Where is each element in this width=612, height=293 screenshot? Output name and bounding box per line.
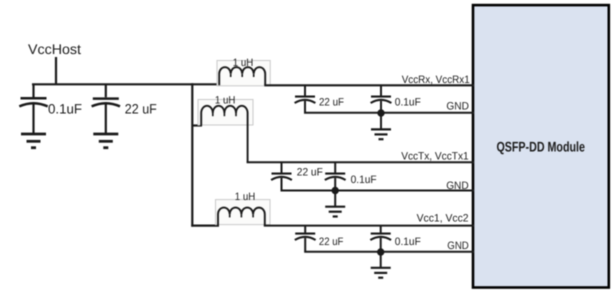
wire L2 feed from bus — [192, 124, 202, 126]
net label VccTx, VccTx1 — [401, 150, 469, 162]
svg-text:0.1uF: 0.1uF — [395, 236, 421, 248]
value label 22 uF (C2) — [125, 102, 157, 117]
node VccHost label — [28, 41, 81, 57]
svg-text:0.1uF: 0.1uF — [395, 97, 421, 109]
ground for C2 — [93, 134, 118, 148]
wire VccHost tap — [55, 57, 57, 85]
net label VccRx, VccRx1 — [402, 74, 470, 86]
junction dot Rx — [377, 109, 384, 116]
svg-text:GND: GND — [447, 240, 469, 252]
svg-text:22 uF: 22 uF — [319, 97, 344, 109]
junction dot Tx — [332, 187, 339, 194]
svg-text:22 uF: 22 uF — [125, 102, 157, 117]
capacitor C7 22uF (Vcc) — [295, 226, 316, 252]
svg-text:GND: GND — [446, 100, 469, 112]
value label 1 uH (L2) — [215, 94, 236, 106]
svg-text:GND: GND — [446, 180, 469, 192]
ground branch Tx — [325, 191, 345, 217]
svg-text:1 uH: 1 uH — [235, 191, 256, 203]
wire VccTx branch top — [247, 161, 474, 163]
ground branch Rx — [371, 113, 391, 139]
capacitor C4 0.1uF (Rx) — [371, 85, 392, 113]
inductor L2 1uH — [201, 106, 247, 163]
value label 0.1uF (C4) — [395, 97, 421, 109]
capacitor C2 22uF — [92, 84, 120, 133]
svg-text:0.1uF: 0.1uF — [351, 174, 377, 186]
value label 22 uF (C7) — [319, 236, 344, 248]
value label 22 uF (C3) — [319, 97, 344, 109]
module U1 QSFP-DD Module box — [473, 5, 609, 287]
value label 1 uH (L1) — [233, 57, 254, 69]
value label 1 uH (L3) — [235, 191, 256, 203]
wire Vcc GND return — [304, 251, 474, 253]
wire main bus — [32, 83, 220, 85]
capacitor C8 0.1uF (Vcc) — [370, 226, 391, 252]
svg-text:VccTx, VccTx1: VccTx, VccTx1 — [401, 150, 469, 162]
capacitor C3 22uF (Rx) — [295, 85, 316, 113]
net label GND (Tx) — [446, 180, 469, 192]
net label Vcc1, Vcc2 — [417, 213, 469, 225]
svg-text:QSFP-DD Module: QSFP-DD Module — [496, 138, 585, 154]
wire Tx GND return — [281, 190, 475, 192]
wire vertical bus to L2 and L3 — [191, 83, 193, 226]
capacitor C6 0.1uF (Tx) — [325, 162, 346, 190]
value label 22 uF (C5) — [297, 166, 323, 178]
wire Vcc branch top — [264, 225, 474, 227]
svg-text:VccHost: VccHost — [28, 41, 81, 57]
inductor L3 1uH — [218, 208, 265, 226]
inductor L1 1uH — [219, 67, 265, 85]
wire VccRx branch top — [264, 84, 474, 86]
svg-text:22 uF: 22 uF — [319, 236, 344, 248]
capacitor C5 22uF (Tx) — [271, 162, 292, 190]
svg-text:0.1uF: 0.1uF — [48, 102, 82, 117]
value label 0.1uF (C8) — [395, 236, 421, 248]
net label GND (Vcc) — [447, 240, 469, 252]
capacitor C1 0.1uF — [19, 84, 47, 133]
svg-text:VccRx, VccRx1: VccRx, VccRx1 — [402, 74, 470, 86]
junction dot Vcc — [377, 248, 384, 255]
inductor L3 boundary box — [216, 200, 271, 225]
value label 0.1uF (C6) — [351, 174, 377, 186]
value label 0.1uF (C1) — [48, 102, 82, 117]
inductor L2 boundary box — [198, 100, 253, 126]
wire L3 feed corner from bus — [191, 225, 219, 227]
wire Rx GND return — [304, 112, 474, 114]
label QSFP-DD Module — [496, 138, 585, 154]
svg-text:Vcc1, Vcc2: Vcc1, Vcc2 — [417, 213, 469, 225]
net label GND (Rx) — [446, 100, 469, 112]
inductor L1 boundary box — [217, 61, 270, 86]
svg-text:1 uH: 1 uH — [215, 94, 236, 106]
ground branch Vcc — [371, 252, 391, 278]
svg-text:22 uF: 22 uF — [297, 166, 323, 178]
ground for C1 — [21, 134, 46, 148]
